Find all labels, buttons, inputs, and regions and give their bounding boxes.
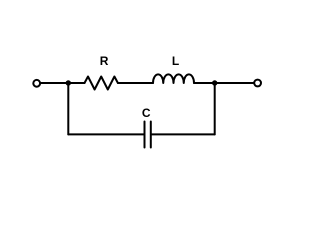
terminal right <box>254 80 261 87</box>
wire <box>41 82 85 84</box>
inductor L <box>153 74 194 83</box>
wire bottom left <box>68 133 143 135</box>
wire bottom right <box>152 133 215 135</box>
svg-text:C: C <box>142 106 151 120</box>
svg-text:L: L <box>172 54 179 68</box>
resistor R <box>85 77 118 90</box>
capacitor C plates <box>144 122 146 148</box>
node left junction <box>66 80 71 85</box>
node right junction <box>212 80 217 85</box>
wire right vertical <box>214 83 216 134</box>
wire left vertical <box>67 83 69 134</box>
wire <box>194 82 254 84</box>
svg-text:R: R <box>100 54 109 68</box>
terminal left <box>33 80 40 87</box>
wire <box>118 82 153 84</box>
